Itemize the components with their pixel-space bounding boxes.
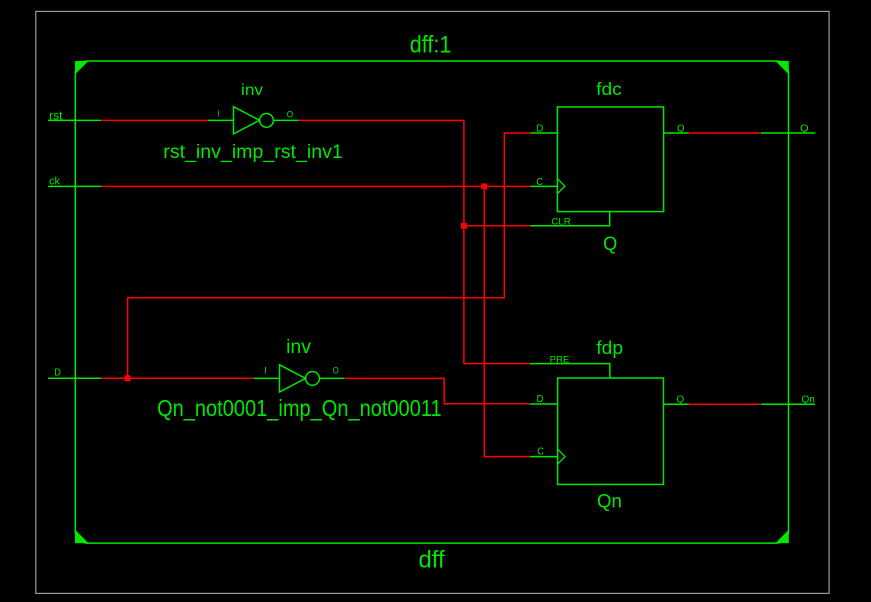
sheet corner mark top-left <box>75 61 89 75</box>
svg-text:D: D <box>536 124 543 135</box>
flip-flop fdc pin C stub <box>531 185 558 187</box>
flip-flop fdp body <box>558 378 664 484</box>
svg-text:I: I <box>264 366 267 376</box>
sheet corner mark top-right <box>776 61 789 75</box>
wire net ck to fdc C <box>101 185 531 187</box>
wire net fdc Q to port Q <box>689 132 761 134</box>
sheet border <box>75 61 788 543</box>
svg-text:C: C <box>536 177 543 188</box>
flip-flop fdc pin Q stub <box>664 132 689 134</box>
wire net rst to inverter input <box>101 119 208 121</box>
junction at D branch <box>125 375 131 381</box>
inverter U2 bubble <box>306 372 320 386</box>
svg-text:C: C <box>537 447 544 458</box>
svg-text:O: O <box>287 110 294 120</box>
sheet corner mark bottom-right <box>776 530 789 544</box>
port Q stub <box>761 132 816 134</box>
svg-text:Q: Q <box>677 124 685 135</box>
svg-text:D: D <box>537 394 544 405</box>
inverter U2 input stub <box>254 377 280 379</box>
inverter U2 triangle <box>280 365 306 392</box>
port rst stub <box>48 119 101 121</box>
svg-text:dff:1: dff:1 <box>410 31 452 58</box>
inverter U2 output stub <box>320 377 345 379</box>
svg-text:inv: inv <box>286 336 311 358</box>
wire net D to inverter 2 input <box>101 377 254 379</box>
flip-flop fdp pin Q stub <box>664 403 689 405</box>
inverter U1 output stub <box>274 119 299 121</box>
wire branch ck to fdp C <box>484 186 530 456</box>
svg-text:Q: Q <box>603 233 617 255</box>
wire net fdp Q to port Qn <box>689 403 761 405</box>
wire net inv2 output to fdp D <box>344 378 530 403</box>
svg-text:PRE: PRE <box>550 355 570 365</box>
flip-flop fdc pin CLR stub <box>531 212 610 226</box>
inverter U1 input stub <box>208 119 234 121</box>
port ck stub <box>48 185 101 187</box>
svg-text:fdc: fdc <box>596 79 622 99</box>
junction at ck branch <box>481 183 487 189</box>
inverter U1 triangle <box>234 107 260 134</box>
svg-text:O: O <box>333 366 339 376</box>
flip-flop fdp pin PRE stub <box>530 364 610 378</box>
flip-flop fdp pin C stub <box>530 456 558 458</box>
svg-text:D: D <box>54 367 61 378</box>
svg-text:Q: Q <box>677 395 685 406</box>
flip-flop fdp pin D stub <box>530 403 558 405</box>
wire branch to fdc CLR <box>464 225 531 227</box>
flip-flop fdc clock chevron <box>557 179 564 194</box>
flip-flop fdc body <box>557 107 663 212</box>
svg-text:rst_inv_imp_rst_inv1: rst_inv_imp_rst_inv1 <box>163 142 342 163</box>
svg-text:I: I <box>218 109 220 119</box>
svg-text:Qn: Qn <box>597 491 622 513</box>
flip-flop fdp clock chevron <box>558 449 565 464</box>
port D stub <box>48 377 101 379</box>
port Qn stub <box>761 403 815 405</box>
svg-text:dff: dff <box>419 547 445 574</box>
wire branch D to fdc D <box>128 133 531 378</box>
wire net inv1 output to fdc CLR and fdp PRE <box>298 120 530 363</box>
sheet corner mark bottom-left <box>75 530 89 544</box>
svg-text:inv: inv <box>241 82 263 99</box>
svg-text:fdp: fdp <box>596 338 623 358</box>
junction at CLR branch <box>461 223 467 229</box>
flip-flop fdc pin D stub <box>531 132 558 134</box>
svg-text:CLR: CLR <box>551 216 571 226</box>
inverter U1 bubble <box>260 114 274 128</box>
svg-text:Qn_not0001_imp_Qn_not00011: Qn_not0001_imp_Qn_not00011 <box>157 395 442 421</box>
